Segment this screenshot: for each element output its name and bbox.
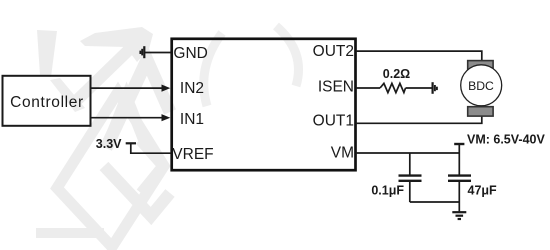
svg-text:VM: VM xyxy=(331,144,354,161)
motor top brush xyxy=(468,61,493,70)
wire VM xyxy=(356,152,459,154)
3.3V terminal bar xyxy=(126,142,136,144)
svg-text:VM: 6.5V-40V: VM: 6.5V-40V xyxy=(467,133,545,147)
wire OUT2 to motor xyxy=(356,51,482,60)
wire resistor to sense terminal xyxy=(406,87,432,89)
watermark: pickaxe logo xyxy=(36,26,299,247)
svg-text:IN2: IN2 xyxy=(180,80,204,97)
motor bottom brush xyxy=(468,107,493,116)
capacitor C1 stem bottom xyxy=(409,182,411,202)
svg-text:3.3V: 3.3V xyxy=(96,137,122,151)
Controller box xyxy=(3,76,91,126)
svg-text:Controller: Controller xyxy=(10,94,84,111)
wire Controller to IN1 xyxy=(91,117,163,119)
ground xyxy=(458,202,460,212)
capacitor C2 stem bottom xyxy=(458,182,460,202)
svg-text:OUT1: OUT1 xyxy=(313,112,354,129)
svg-text:VREF: VREF xyxy=(172,146,213,163)
wire 3.3V to VREF xyxy=(131,143,171,153)
svg-text:GND: GND xyxy=(173,45,207,62)
wire Controller to IN2 xyxy=(91,87,163,89)
wire GND to terminal xyxy=(144,52,171,54)
svg-text:ISEN: ISEN xyxy=(318,78,354,95)
svg-text:0.2Ω: 0.2Ω xyxy=(383,67,410,81)
ISEN terminal (rotated ground, 3 bars) xyxy=(432,82,434,94)
svg-text:OUT2: OUT2 xyxy=(313,43,354,60)
wire OUT1 to motor xyxy=(356,116,482,123)
svg-text:47μF: 47μF xyxy=(468,184,498,198)
resistor R1 0.2ohm xyxy=(380,83,406,92)
GND terminal (rotated ground, 3 bars) xyxy=(143,46,145,58)
wire cap bottoms xyxy=(410,201,460,203)
motor BDC body xyxy=(461,65,502,106)
wire ISEN to resistor xyxy=(356,87,380,89)
capacitor C1 0.1uF stem top xyxy=(409,153,411,175)
capacitor C2 47uF stem top xyxy=(458,153,460,175)
VM supply terminal xyxy=(458,144,460,153)
svg-text:BDC: BDC xyxy=(468,79,494,93)
capacitor C2 plates xyxy=(448,174,471,176)
svg-text:0.1μF: 0.1μF xyxy=(371,184,404,198)
capacitor C1 plates xyxy=(399,174,422,176)
IC U1 (driver block) xyxy=(172,39,356,170)
svg-text:IN1: IN1 xyxy=(180,111,204,128)
